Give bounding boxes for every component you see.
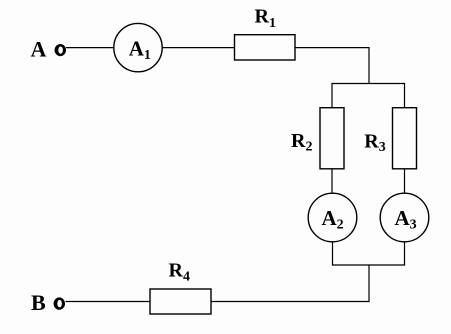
ammeter A3 — [380, 193, 429, 242]
wire bottom bar — [332, 264, 405, 266]
wire — [368, 265, 370, 302]
resistor R4 — [150, 289, 211, 314]
wire — [66, 301, 151, 303]
wire — [295, 47, 369, 49]
wire — [332, 242, 334, 265]
wire top bar — [332, 83, 405, 85]
wire — [404, 83, 406, 108]
terminal B — [54, 297, 65, 309]
wire — [404, 169, 406, 194]
wire — [211, 301, 370, 303]
resistor R2 — [320, 108, 344, 169]
terminal A — [55, 44, 66, 56]
resistor R1 — [235, 35, 296, 60]
svg-text:R3: R3 — [364, 130, 385, 155]
svg-text:A: A — [31, 37, 47, 62]
resistor R3 — [393, 108, 417, 169]
svg-text:R4: R4 — [169, 259, 190, 284]
svg-text:B: B — [31, 290, 46, 315]
svg-text:A3: A3 — [395, 206, 417, 233]
svg-text:R2: R2 — [291, 130, 312, 155]
svg-text:A1: A1 — [129, 37, 151, 64]
svg-text:A2: A2 — [322, 206, 344, 233]
wire — [66, 47, 114, 49]
wire — [331, 83, 333, 108]
wire — [368, 47, 370, 84]
svg-text:R1: R1 — [255, 6, 276, 31]
ammeter A2 — [308, 193, 357, 242]
ammeter A1 — [114, 23, 162, 71]
wire — [331, 169, 333, 194]
wire — [404, 242, 406, 265]
wire — [162, 47, 234, 49]
